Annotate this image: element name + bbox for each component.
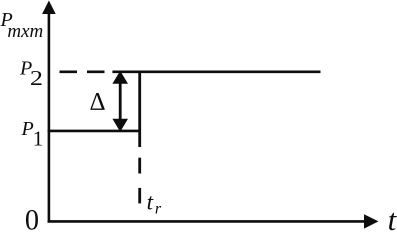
- y-axis arrowhead: [42, 1, 56, 15]
- t_r vertical dashed line segment 2: [138, 188, 141, 204]
- y-axis P axis vertical line: [48, 12, 51, 223]
- svg-text:t: t: [388, 202, 397, 234]
- svg-text:0: 0: [25, 204, 39, 234]
- x-axis arrowhead: [364, 214, 379, 228]
- svg-text:r: r: [155, 200, 162, 217]
- svg-text:2: 2: [30, 68, 43, 91]
- svg-text:mxm: mxm: [7, 21, 43, 42]
- P2 level dashed line: [60, 71, 113, 74]
- delta double arrow top arrowhead: [112, 71, 128, 84]
- P1 level solid line: [48, 130, 141, 133]
- svg-text:P: P: [21, 118, 34, 140]
- P2 level solid line: [112, 71, 320, 74]
- svg-text:Δ: Δ: [90, 88, 106, 115]
- t_r vertical dashed line segment 1: [138, 158, 141, 174]
- delta double arrow bottom arrowhead: [112, 119, 128, 132]
- svg-text:t: t: [147, 190, 154, 215]
- step vertical solid line at t_r: [138, 71, 141, 148]
- svg-text:1: 1: [33, 127, 44, 151]
- x-axis t axis horizontal line: [48, 220, 366, 223]
- delta double arrow shaft: [119, 80, 122, 122]
